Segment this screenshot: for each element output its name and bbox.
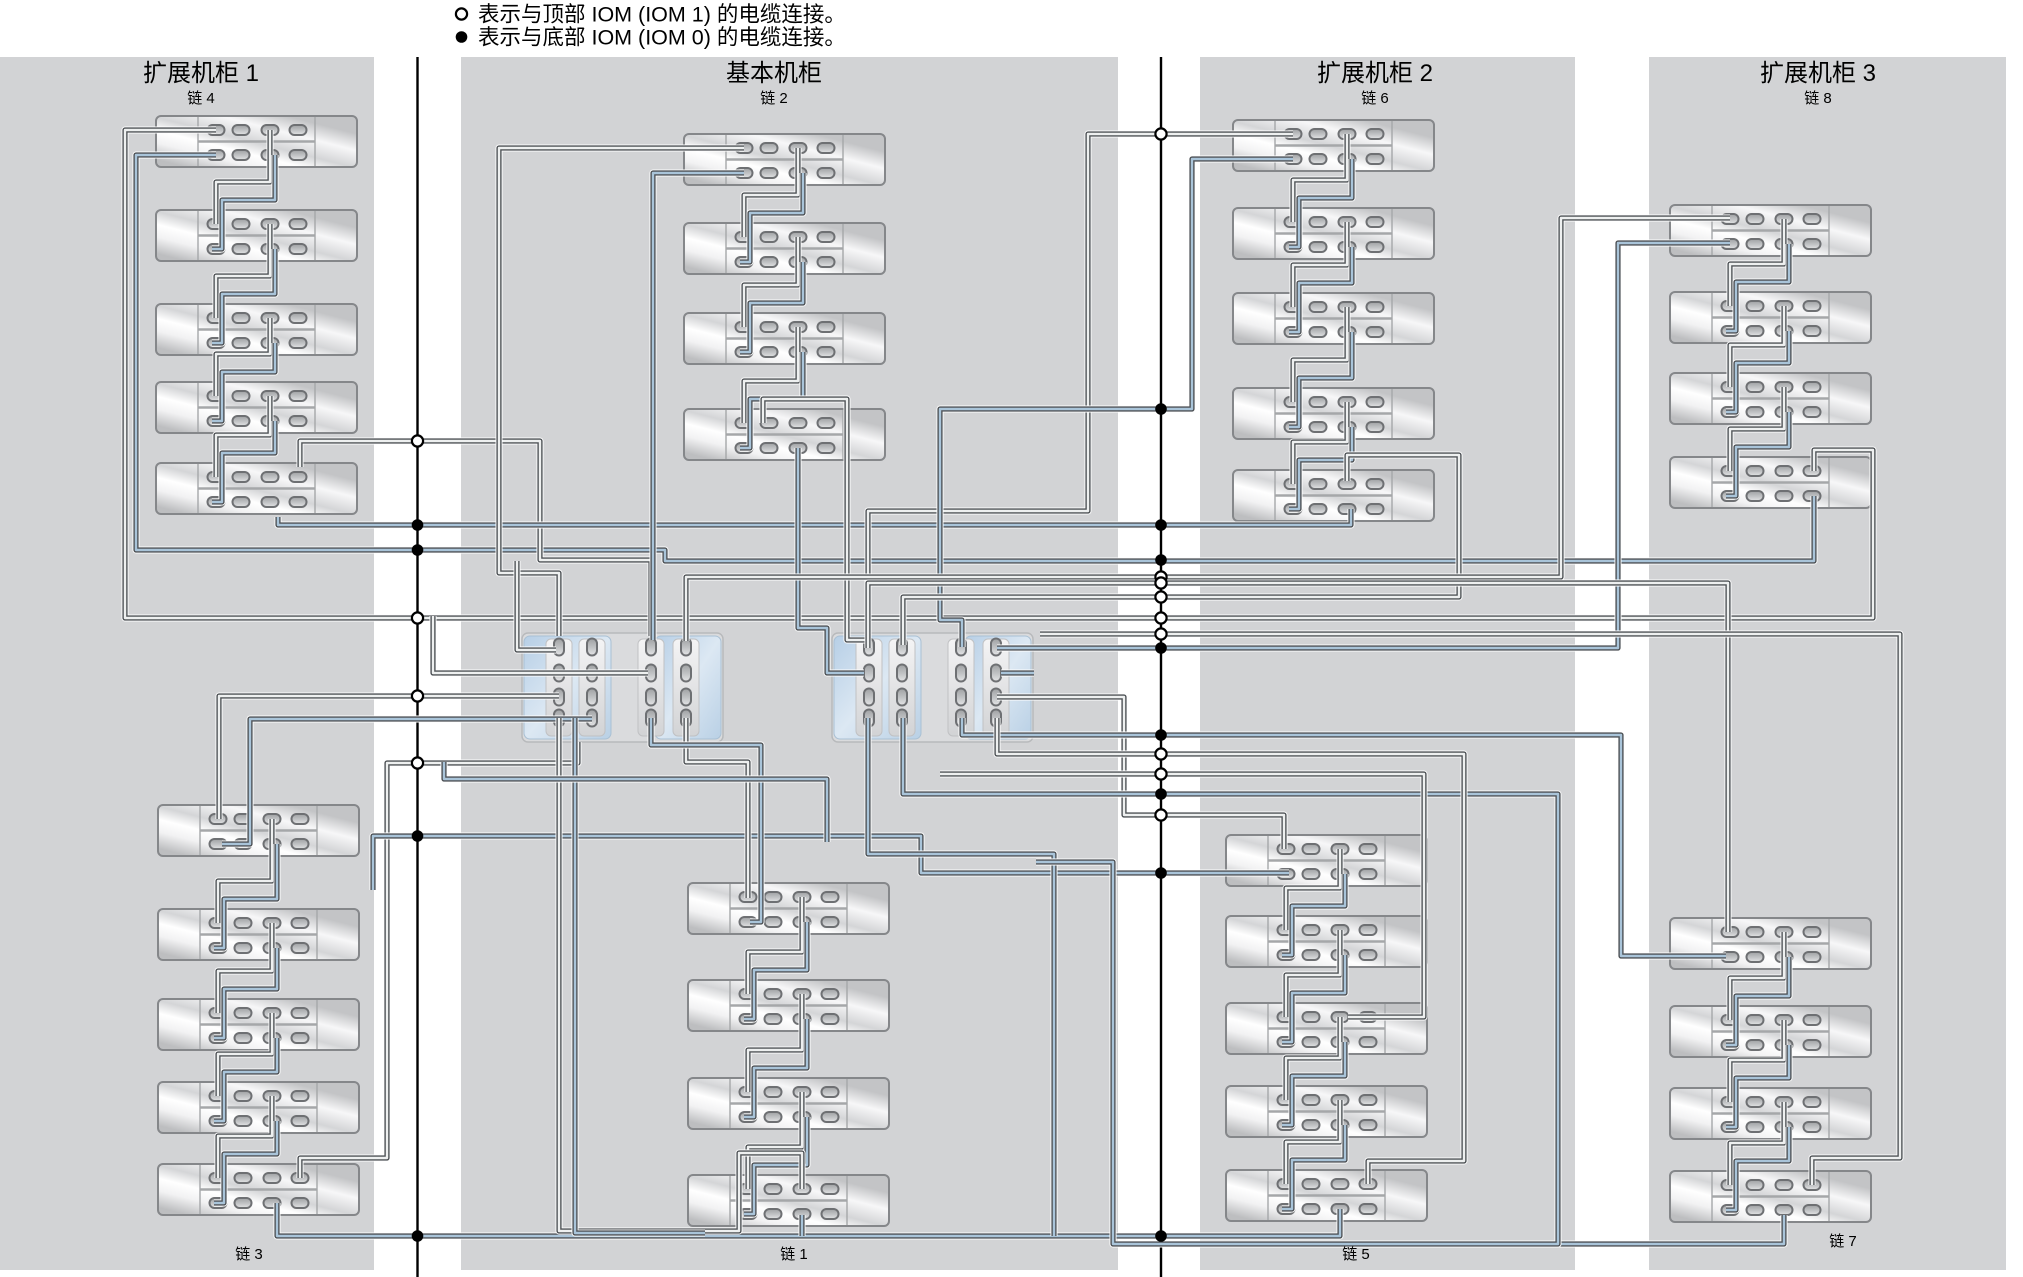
junction IOM0 (filled) on line2 y=735 xyxy=(1155,729,1167,741)
cable chain3/chain5 IOM0 tail y836-y873 xyxy=(373,836,1289,890)
cable chain7 IOM0 exit y1244 xyxy=(1558,1215,1784,1244)
cable IOM0 chain step xyxy=(740,173,803,262)
cable IOM1 chain step xyxy=(1286,930,1340,1017)
cable IOM1 chain step xyxy=(744,148,798,237)
cable IOM1 chain step xyxy=(1293,402,1347,484)
disk shelf rack1 top 2 xyxy=(156,210,357,261)
disk shelf base bottom 2 xyxy=(688,980,889,1031)
svg-text:扩展机柜 2: 扩展机柜 2 xyxy=(1317,60,1433,87)
cable chain1 IOM0 exit stub xyxy=(799,1215,806,1236)
cable IOM0 chain step xyxy=(214,948,277,1038)
cable chain6 IOM1 exit y597 xyxy=(903,455,1459,645)
disk shelf rack2 bottom 2 xyxy=(1226,916,1427,967)
cable IOM1 chain step xyxy=(216,396,270,477)
cable chain4 IOM1 exit y441 xyxy=(300,441,651,636)
disk shelf base top 1 xyxy=(684,134,885,185)
disk shelf rack3 top 2 xyxy=(1670,292,1871,343)
cable IOM1 chain step xyxy=(1293,134,1347,222)
disk shelf base top 2 xyxy=(684,223,885,274)
cable chain1 IOM0 riser x1054 xyxy=(868,718,1054,1236)
junction IOM1 (open) on line2 y=634 xyxy=(1155,628,1166,639)
cable IOM0 chain step xyxy=(1289,332,1352,427)
disk shelf rack3 top 3 xyxy=(1670,373,1871,424)
cable IOM0 chain step xyxy=(740,262,803,352)
junction IOM1 (open) on line1 y=763 xyxy=(412,757,423,768)
junction IOM0 (filled) on line2 y=409 xyxy=(1155,403,1167,415)
cable IOM0 chain step xyxy=(1726,244,1789,331)
svg-text:基本机柜: 基本机柜 xyxy=(726,60,822,87)
cable IOM0 chain step xyxy=(1289,427,1352,509)
svg-text:链 1: 链 1 xyxy=(780,1246,808,1263)
cable chain7 IOM0 entry y735 xyxy=(962,718,1726,956)
disk shelf rack1 bottom 5 xyxy=(158,1164,359,1215)
disk shelf base top 4 xyxy=(684,409,885,460)
cable IOM1 chain step xyxy=(1286,849,1340,930)
junction IOM1 (open) on line2 y=597 xyxy=(1155,591,1166,602)
cable IOM0 chain step xyxy=(1726,412,1789,496)
cable IOM0 chain step xyxy=(1282,1125,1345,1209)
junction IOM1 (open) on line2 y=583 xyxy=(1155,577,1166,588)
disk shelf rack1 top 5 xyxy=(156,463,357,514)
cable IOM0 chain step xyxy=(740,352,803,448)
disk shelf rack1 bottom 1 xyxy=(158,805,359,856)
cable IOM1 chain step xyxy=(216,130,270,224)
junction IOM1 (open) on line2 y=577 xyxy=(1155,571,1166,582)
cable chain4/chain6 IOM0 exit y525 xyxy=(278,509,1351,525)
disk shelf rack2 bottom 3 xyxy=(1226,1003,1427,1054)
cable IOM1 chain step xyxy=(216,224,270,318)
svg-text:扩展机柜 1: 扩展机柜 1 xyxy=(143,60,259,87)
cable IOM1 chain step xyxy=(1730,1020,1784,1102)
disk shelf rack1 bottom 4 xyxy=(158,1082,359,1133)
cable IOM0 chain step xyxy=(744,1019,807,1117)
cable IOM1 chain step xyxy=(218,819,272,923)
junction IOM0 (filled) on line2 y=1236 xyxy=(1155,1230,1167,1242)
cable IOM0 chain step xyxy=(212,343,275,421)
junction IOM0 (filled) on line2 y=794 xyxy=(1155,788,1167,800)
disk shelf rack1 top 3 xyxy=(156,304,357,355)
svg-text:链 7: 链 7 xyxy=(1829,1233,1857,1250)
rack panel: expansion cabinet 3 xyxy=(1649,57,2006,1270)
legend symbol IOM0 (filled circle) xyxy=(456,31,468,43)
cable chain4 IOM1 entry / long bus y618 xyxy=(125,130,1873,618)
svg-text:表示与顶部 IOM (IOM 1) 的电缆连接。: 表示与顶部 IOM (IOM 1) 的电缆连接。 xyxy=(478,3,846,27)
disk shelf rack3 top 1 xyxy=(1670,205,1871,256)
cable IOM0 chain step xyxy=(1726,957,1789,1045)
svg-text:链 4: 链 4 xyxy=(187,90,215,107)
disk shelf rack1 top 1 xyxy=(156,116,357,167)
cable IOM1 chain step xyxy=(1293,307,1347,402)
rack boundary line 2 xyxy=(1160,57,1162,1277)
cable chain8 IOM0 entry y648 xyxy=(997,243,1730,648)
disk shelf rack2 top 2 xyxy=(1233,208,1434,259)
cable IOM1 chain step xyxy=(748,1092,802,1189)
cable IOM1 chain step xyxy=(1730,387,1784,471)
cable IOM0 chain step xyxy=(212,421,275,502)
disk shelf rack2 bottom 4 xyxy=(1226,1086,1427,1137)
cable IOM0 chain step xyxy=(1289,159,1352,247)
junction IOM1 (open) on line2 y=815 xyxy=(1155,809,1166,820)
cable chain8 IOM1 entry y577 xyxy=(686,218,1730,641)
junction IOM0 (filled) on line2 y=525 xyxy=(1155,519,1167,531)
junction IOM0 (filled) on line1 y=1236 xyxy=(412,1230,424,1242)
disk shelf rack3 bottom 2 xyxy=(1670,1006,1871,1057)
cable chain4/chain8 IOM0 y550-y561 xyxy=(136,155,1814,561)
cable IOM0 chain step xyxy=(1282,874,1345,955)
cable IOM0 chain step xyxy=(212,155,275,249)
cable IOM1 chain step xyxy=(1293,222,1347,307)
cable ctrl2 col4 row2 feed xyxy=(1001,670,1034,677)
cable IOM0 chain step xyxy=(1726,1045,1789,1127)
cable chain2 IOM0 exit xyxy=(798,448,864,673)
legend symbol IOM1 (open circle) xyxy=(456,8,467,19)
cable IOM0 bus y794 xyxy=(903,718,1558,1244)
cable IOM1 chain step xyxy=(1730,306,1784,387)
rack panel: expansion cabinet 2 xyxy=(1200,57,1575,1270)
cable chain7 IOM1 exit y634 xyxy=(1040,634,1900,1185)
svg-text:链 5: 链 5 xyxy=(1342,1246,1370,1263)
cable IOM0 chain step xyxy=(744,922,807,1019)
cable IOM1 chain step xyxy=(1286,1017,1340,1100)
rack panel: base cabinet xyxy=(461,57,1118,1270)
junction IOM0 (filled) on line1 y=525 xyxy=(412,519,424,531)
cable chain5 IOM1 entry y815 xyxy=(997,697,1284,849)
cable chain3 IOM1 tail y763 xyxy=(300,742,578,1178)
cable ctrl1 col3 feed y673 xyxy=(433,616,648,673)
disk shelf rack1 top 4 xyxy=(156,382,357,433)
junction IOM1 (open) on line2 y=754 xyxy=(1155,748,1166,759)
svg-text:链 6: 链 6 xyxy=(1361,90,1389,107)
cable IOM1 chain step xyxy=(744,327,798,423)
junction IOM0 (filled) on line2 y=873 xyxy=(1155,867,1167,879)
cable IOM0 chain step xyxy=(214,1038,277,1121)
junction IOM1 (open) on line1 y=441 xyxy=(412,435,423,446)
cable ctrl1 port feed x517 xyxy=(517,561,556,650)
cable IOM1 chain step xyxy=(1730,932,1784,1020)
cable chain2 IOM1 entry xyxy=(499,148,744,636)
cable IOM0 chain step xyxy=(214,1121,277,1203)
cable IOM1 bus y774 xyxy=(940,774,1424,1017)
cable chain7 IOM1 entry y583 xyxy=(868,583,1728,932)
junction IOM1 (open) on line2 y=774 xyxy=(1155,768,1166,779)
cable IOM1 chain step xyxy=(748,994,802,1092)
cable IOM0 chain step xyxy=(1282,1042,1345,1125)
cable chain1 IOM0 entry xyxy=(651,718,761,922)
disk shelf rack3 top 4 xyxy=(1670,457,1871,508)
cable IOM1 chain step xyxy=(1730,219,1784,306)
cable IOM1 chain step xyxy=(748,897,802,994)
cable IOM0 run y779 xyxy=(444,762,827,842)
cable chain1 IOM1 entry xyxy=(686,718,748,898)
junction IOM1 (open) on line1 y=618 xyxy=(412,612,423,623)
cable chain3/chain5 IOM0 bus y1236 xyxy=(277,1203,1340,1236)
junction IOM0 (filled) on line2 y=560 xyxy=(1155,554,1167,566)
cable IOM1 chain step xyxy=(216,318,270,396)
cable IOM1 chain step xyxy=(218,923,272,1013)
svg-text:链 3: 链 3 xyxy=(235,1246,263,1263)
junction IOM0 (filled) on line1 y=550 xyxy=(412,544,424,556)
rack boundary line 1 xyxy=(416,57,418,1277)
svg-text:扩展机柜 3: 扩展机柜 3 xyxy=(1760,60,1876,87)
cable chain1 IOM1 exit xyxy=(559,718,802,1231)
cable IOM1 chain step xyxy=(1286,1100,1340,1184)
disk shelf rack3 bottom 1 xyxy=(1670,918,1871,969)
disk shelf rack2 top 5 xyxy=(1233,470,1434,521)
disk shelf base bottom 1 xyxy=(688,883,889,934)
cable IOM1 chain step xyxy=(1730,1102,1784,1185)
disk shelf base top 3 xyxy=(684,313,885,364)
cable IOM1 chain step xyxy=(218,1013,272,1096)
disk shelf rack2 top 1 xyxy=(1233,120,1434,171)
disk shelf rack2 top 3 xyxy=(1233,293,1434,344)
cable IOM0 chain step xyxy=(744,1117,807,1214)
cable IOM0 chain step xyxy=(212,249,275,343)
cable IOM1 chain step xyxy=(744,237,798,327)
junction IOM0 (filled) on line1 y=836 xyxy=(412,830,424,842)
cable IOM0 chain step xyxy=(1282,955,1345,1042)
svg-text:链 2: 链 2 xyxy=(760,90,788,107)
svg-text:链 8: 链 8 xyxy=(1804,90,1832,107)
disk shelf rack1 bottom 3 xyxy=(158,999,359,1050)
controller 2 xyxy=(832,633,1033,742)
cable chain6 IOM0 entry y409 xyxy=(940,159,1293,647)
disk shelf rack2 bottom 5 xyxy=(1226,1170,1427,1221)
cable IOM0 chain step xyxy=(214,844,277,948)
cable IOM0 chain step xyxy=(1726,1127,1789,1210)
disk shelf rack3 bottom 3 xyxy=(1670,1088,1871,1139)
junction IOM1 (open) on line2 y=618 xyxy=(1155,612,1166,623)
cable IOM1 chain step xyxy=(218,1096,272,1178)
disk shelf rack3 bottom 4 xyxy=(1670,1171,1871,1222)
cable chain3 IOM0 entry y722 xyxy=(222,719,592,844)
svg-text:表示与底部 IOM (IOM 0) 的电缆连接。: 表示与底部 IOM (IOM 0) 的电缆连接。 xyxy=(478,26,846,50)
cable IOM0 chain step xyxy=(1726,331,1789,412)
cable chain6 IOM1 entry y134 xyxy=(868,134,1293,583)
junction IOM0 (filled) on line2 y=648 xyxy=(1155,642,1167,654)
controller 1 xyxy=(522,633,723,742)
disk shelf rack2 top 4 xyxy=(1233,388,1434,439)
disk shelf base bottom 3 xyxy=(688,1078,889,1129)
cable IOM0 chain step xyxy=(1289,247,1352,332)
cable chain1 IOM0 exit riser xyxy=(575,718,705,1233)
disk shelf rack1 bottom 2 xyxy=(158,909,359,960)
junction IOM1 (open) on line1 y=696 xyxy=(412,690,423,701)
junction IOM1 (open) on line2 y=134 xyxy=(1155,128,1166,139)
disk shelf base bottom 4 xyxy=(688,1175,889,1226)
cable chain2 IOM1 exit xyxy=(763,399,868,648)
disk shelf rack2 bottom 1 xyxy=(1226,835,1427,886)
rack panel: expansion cabinet 1 xyxy=(0,57,374,1270)
cable chain2 IOM0 entry xyxy=(653,173,744,640)
cable chain3 IOM1 entry y694 xyxy=(219,696,559,819)
cable chain5 IOM1 tail y754 xyxy=(997,718,1464,1184)
